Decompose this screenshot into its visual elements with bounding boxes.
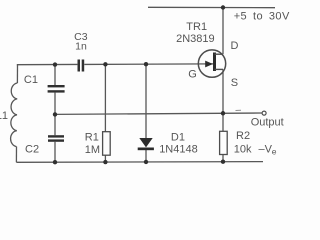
wire scan artifact dash above output bus — [236, 109, 242, 111]
svg-text:e: e — [272, 146, 277, 156]
node drain/supply — [221, 5, 225, 9]
wire R2 bottom lead — [222, 155, 224, 162]
wire gate bus left segment — [17, 63, 78, 65]
output terminal — [262, 111, 266, 115]
svg-text:R1: R1 — [85, 132, 99, 144]
wire top supply rail — [148, 6, 275, 8]
svg-text:–V: –V — [259, 144, 273, 156]
wire L1 bottom lead — [15, 147, 17, 163]
wire L1 top lead — [16, 65, 18, 83]
wire C1 top lead — [54, 65, 56, 86]
svg-text:1M: 1M — [85, 144, 100, 156]
resistor R2 — [220, 131, 228, 154]
resistor R1 — [103, 132, 111, 156]
node D1 top — [144, 62, 148, 66]
node R2 bottom — [221, 160, 225, 164]
svg-text:S: S — [231, 77, 238, 89]
svg-text:2N3819: 2N3819 — [176, 33, 215, 45]
node R1 bottom — [103, 160, 107, 164]
wire source vertical / R2 top lead — [222, 69, 224, 131]
node source/output — [221, 111, 225, 115]
wire D1 bottom lead — [145, 150, 147, 162]
node C2 bottom — [53, 160, 57, 164]
node C1 top — [53, 62, 57, 66]
svg-text:G: G — [188, 69, 197, 81]
svg-text:Output: Output — [251, 117, 284, 129]
wire R1 bottom lead — [104, 155, 106, 162]
svg-text:+5 to 30V: +5 to 30V — [234, 11, 290, 23]
wire drain vertical — [222, 8, 224, 55]
svg-text:C2: C2 — [25, 143, 39, 155]
svg-text:L1: L1 — [0, 110, 8, 122]
svg-text:C1: C1 — [24, 74, 38, 86]
wire R1 top lead — [104, 64, 106, 131]
wire gate bus right segment — [84, 63, 213, 66]
node D1 bottom — [144, 160, 148, 164]
svg-text:D: D — [231, 40, 239, 52]
inductor L1 — [11, 83, 18, 147]
transistor TR1 (2N3819 JFET) — [198, 50, 225, 77]
svg-text:TR1: TR1 — [186, 21, 207, 33]
capacitor C2 — [48, 135, 64, 142]
svg-text:D1: D1 — [171, 131, 185, 143]
wire D1 top lead — [145, 64, 147, 138]
svg-text:10k: 10k — [234, 143, 252, 155]
capacitor C1 — [48, 85, 65, 93]
svg-text:1N4148: 1N4148 — [159, 144, 198, 156]
node C1-C2 tap — [53, 112, 57, 116]
wire bottom rail — [16, 161, 263, 164]
capacitor C3 — [78, 60, 85, 72]
wire C2 bottom lead — [54, 142, 56, 162]
node R1 top — [103, 62, 107, 66]
wire middle output bus — [55, 113, 262, 114]
svg-text:R2: R2 — [236, 130, 250, 142]
diode D1 — [138, 138, 154, 150]
wire C1-C2 middle lead — [54, 93, 56, 136]
svg-text:1n: 1n — [75, 41, 87, 53]
